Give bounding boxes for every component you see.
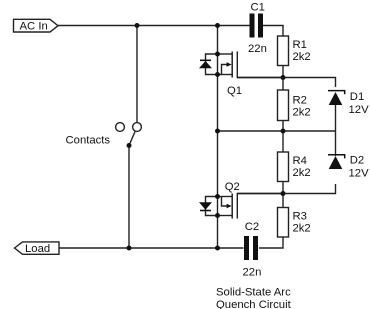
wire node A to R2 bbox=[282, 78, 284, 91]
svg-text:D2: D2 bbox=[350, 155, 364, 167]
junction dot Q2 bottom bbox=[215, 213, 220, 218]
svg-text:Load: Load bbox=[25, 243, 50, 255]
wire C1 to R1 top bbox=[263, 26, 283, 37]
terminal tag Load bbox=[15, 242, 60, 255]
wire R2 to node B bbox=[282, 121, 284, 132]
resistor R2 bbox=[278, 90, 289, 121]
svg-text:Q1: Q1 bbox=[227, 85, 242, 97]
wire node C horizontal (Q2 gate, R4/R3, D2 bottom) bbox=[237, 184, 335, 194]
wire main bus vertical bbox=[217, 26, 219, 249]
Q2 gate line bbox=[237, 194, 283, 219]
svg-text:2k2: 2k2 bbox=[293, 51, 311, 63]
wire left bus lower (blade to bottom wire) bbox=[128, 146, 130, 249]
svg-text:C1: C1 bbox=[251, 2, 265, 14]
Q1 channel bar bbox=[231, 52, 233, 78]
junction dot node A at R1/R2 bbox=[281, 75, 286, 80]
transistor Q1 MOSFET bbox=[199, 52, 283, 78]
svg-text:R2: R2 bbox=[293, 94, 307, 106]
svg-text:R1: R1 bbox=[293, 39, 307, 51]
Q1 drain stub bbox=[218, 53, 233, 55]
svg-text:22n: 22n bbox=[243, 266, 262, 278]
wire R4 to node C bbox=[282, 182, 284, 194]
Q2 drain stub (bottom) bbox=[218, 215, 233, 217]
svg-text:Contacts: Contacts bbox=[66, 134, 111, 146]
wire node A horizontal (Q1 gate, R1/R2, D1 top) bbox=[237, 78, 335, 88]
wire bottom Load to C2 bbox=[59, 247, 244, 249]
junction dot bus node B bbox=[215, 129, 220, 134]
svg-text:Quench Circuit: Quench Circuit bbox=[216, 299, 292, 309]
junction dot blade end bbox=[127, 143, 132, 148]
svg-text:Q2: Q2 bbox=[225, 181, 240, 193]
svg-text:2k2: 2k2 bbox=[293, 167, 311, 179]
wire D1 to D2 segment bbox=[335, 105, 337, 156]
junction dot top-left node bbox=[135, 23, 140, 28]
junction dot Q1 drain bbox=[215, 52, 220, 57]
Q2 body diode bbox=[206, 197, 218, 216]
Q2 source stub (top) bbox=[218, 196, 233, 198]
Q1 body diode bbox=[206, 54, 218, 75]
Q2 channel bar bbox=[231, 194, 233, 219]
contact circle right bbox=[133, 123, 142, 132]
svg-text:D1: D1 bbox=[350, 91, 364, 103]
junction dot bottom bus node bbox=[215, 246, 220, 251]
wire C2 to R3 bottom bbox=[259, 237, 283, 248]
svg-text:12V: 12V bbox=[349, 104, 370, 116]
svg-text:2k2: 2k2 bbox=[293, 106, 311, 118]
contact circle left bbox=[116, 123, 125, 132]
switch contacts S1 bbox=[116, 123, 142, 146]
svg-text:AC In: AC In bbox=[20, 21, 48, 33]
capacitor C2 bbox=[244, 236, 258, 260]
Q1 source stub bbox=[218, 74, 233, 76]
resistor R4 bbox=[278, 152, 289, 182]
svg-text:12V: 12V bbox=[349, 167, 370, 179]
resistor R1 bbox=[278, 36, 289, 66]
zener diode D1 bbox=[328, 91, 345, 105]
wire R1 to node A bbox=[282, 66, 284, 78]
wire node C to R3 bbox=[282, 194, 284, 208]
junction dot Q1 source bbox=[215, 72, 220, 77]
svg-text:22n: 22n bbox=[248, 43, 267, 55]
junction dot node B at R2/R4 bbox=[281, 129, 286, 134]
resistor R3 bbox=[278, 208, 289, 238]
svg-text:C2: C2 bbox=[245, 221, 259, 233]
capacitor C1 bbox=[250, 14, 264, 38]
Q2 substrate arrow bbox=[222, 197, 228, 207]
switch blade bbox=[129, 131, 135, 146]
Q1 substrate arrow bbox=[222, 65, 228, 75]
junction dot top bus node bbox=[215, 23, 220, 28]
wire top AC In to C1 bbox=[58, 25, 250, 27]
svg-text:Solid-State Arc: Solid-State Arc bbox=[216, 286, 291, 298]
svg-text:R3: R3 bbox=[293, 210, 307, 222]
junction dot node C at R4/R3 bbox=[281, 191, 286, 196]
transistor Q2 MOSFET bbox=[199, 194, 283, 219]
Q1 gate line bbox=[237, 52, 283, 78]
junction dot bottom-left node bbox=[127, 246, 132, 251]
wire node B middle horizontal (bus, R2/R4, D1/D2) bbox=[218, 130, 336, 132]
svg-text:R4: R4 bbox=[293, 155, 307, 167]
wire node B to R4 bbox=[282, 131, 284, 152]
terminal tag AC In bbox=[14, 19, 59, 32]
wire left bus upper (AC In node down to contact) bbox=[136, 26, 138, 123]
junction dot Q2 top bbox=[215, 194, 220, 199]
zener diode D2 bbox=[328, 155, 345, 169]
svg-text:2k2: 2k2 bbox=[293, 222, 311, 234]
